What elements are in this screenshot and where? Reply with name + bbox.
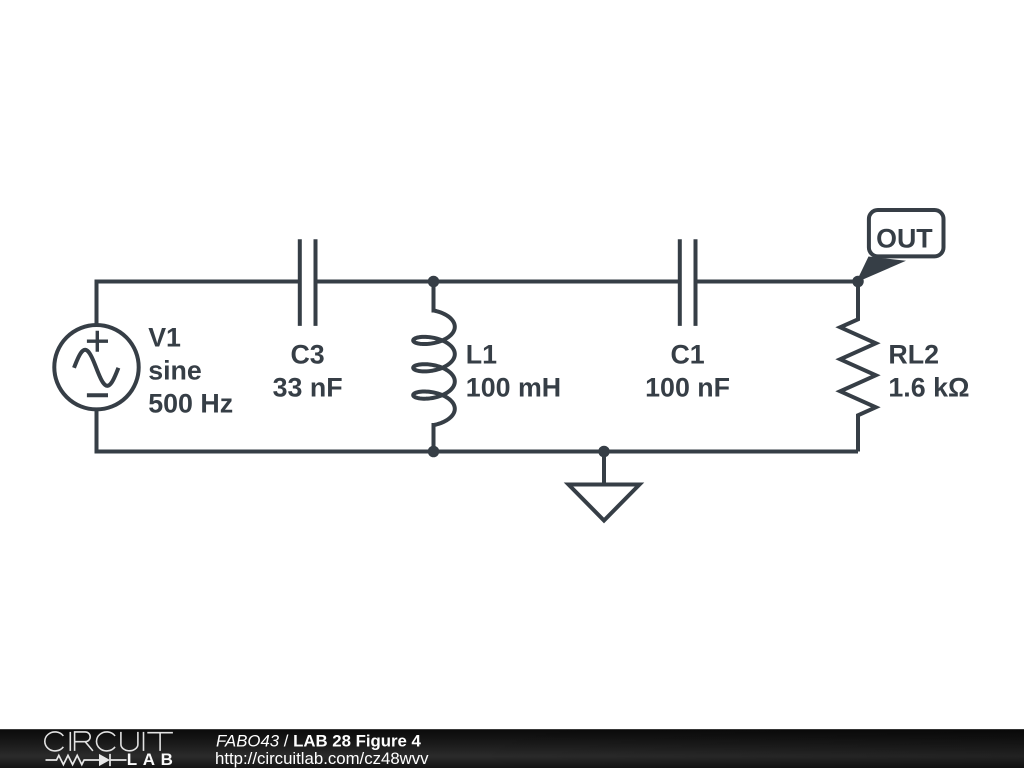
svg-text:33 nF: 33 nF: [273, 373, 343, 403]
node dot OUT: [852, 276, 864, 288]
svg-text:LAB: LAB: [127, 750, 179, 768]
svg-text:RL2: RL2: [888, 339, 939, 369]
footer bar: [0, 729, 1024, 768]
voltage source V1: [54, 325, 138, 409]
svg-text:http://circuitlab.com/cz48wvv: http://circuitlab.com/cz48wvv: [215, 749, 429, 768]
svg-text:OUT: OUT: [876, 223, 933, 253]
svg-text:500 Hz: 500 Hz: [148, 388, 233, 418]
logo resistor-diode symbol: [46, 754, 127, 766]
wire top-right from C1 to OUT node: [698, 280, 859, 284]
logo diode triangle: [99, 754, 110, 766]
label C1: [645, 339, 730, 402]
svg-text:sine: sine: [148, 356, 202, 386]
logo CIRCUIT: [45, 732, 173, 751]
label RL2: [888, 339, 969, 402]
node dot ground: [598, 446, 610, 458]
OUT flag box: [869, 210, 944, 256]
wire top-left from V1 to C3: [97, 282, 299, 326]
label V1: [148, 323, 233, 419]
node dot L1 bottom: [428, 446, 440, 458]
svg-text:V1: V1: [148, 323, 181, 353]
wire bottom rail from V1 to RL2: [97, 409, 859, 452]
resistor RL2: [840, 282, 876, 452]
svg-text:1.6 kΩ: 1.6 kΩ: [888, 373, 969, 403]
label L1: [466, 339, 561, 402]
ground: [569, 452, 640, 521]
capacitor C1: [680, 239, 696, 326]
svg-text:100 mH: 100 mH: [466, 373, 561, 403]
label C3: [273, 339, 343, 402]
svg-text:C1: C1: [670, 339, 704, 369]
OUT flag pointer: [856, 257, 906, 283]
capacitor C3: [300, 239, 316, 326]
inductor L1: [413, 282, 455, 452]
svg-text:L1: L1: [466, 339, 497, 369]
node dot L1 top: [428, 276, 440, 288]
svg-text:100 nF: 100 nF: [645, 373, 730, 403]
wire top-middle from C3 to C1: [318, 280, 679, 284]
svg-text:C3: C3: [290, 339, 324, 369]
svg-text:FABO43 / LAB 28 Figure 4: FABO43 / LAB 28 Figure 4: [216, 732, 422, 751]
